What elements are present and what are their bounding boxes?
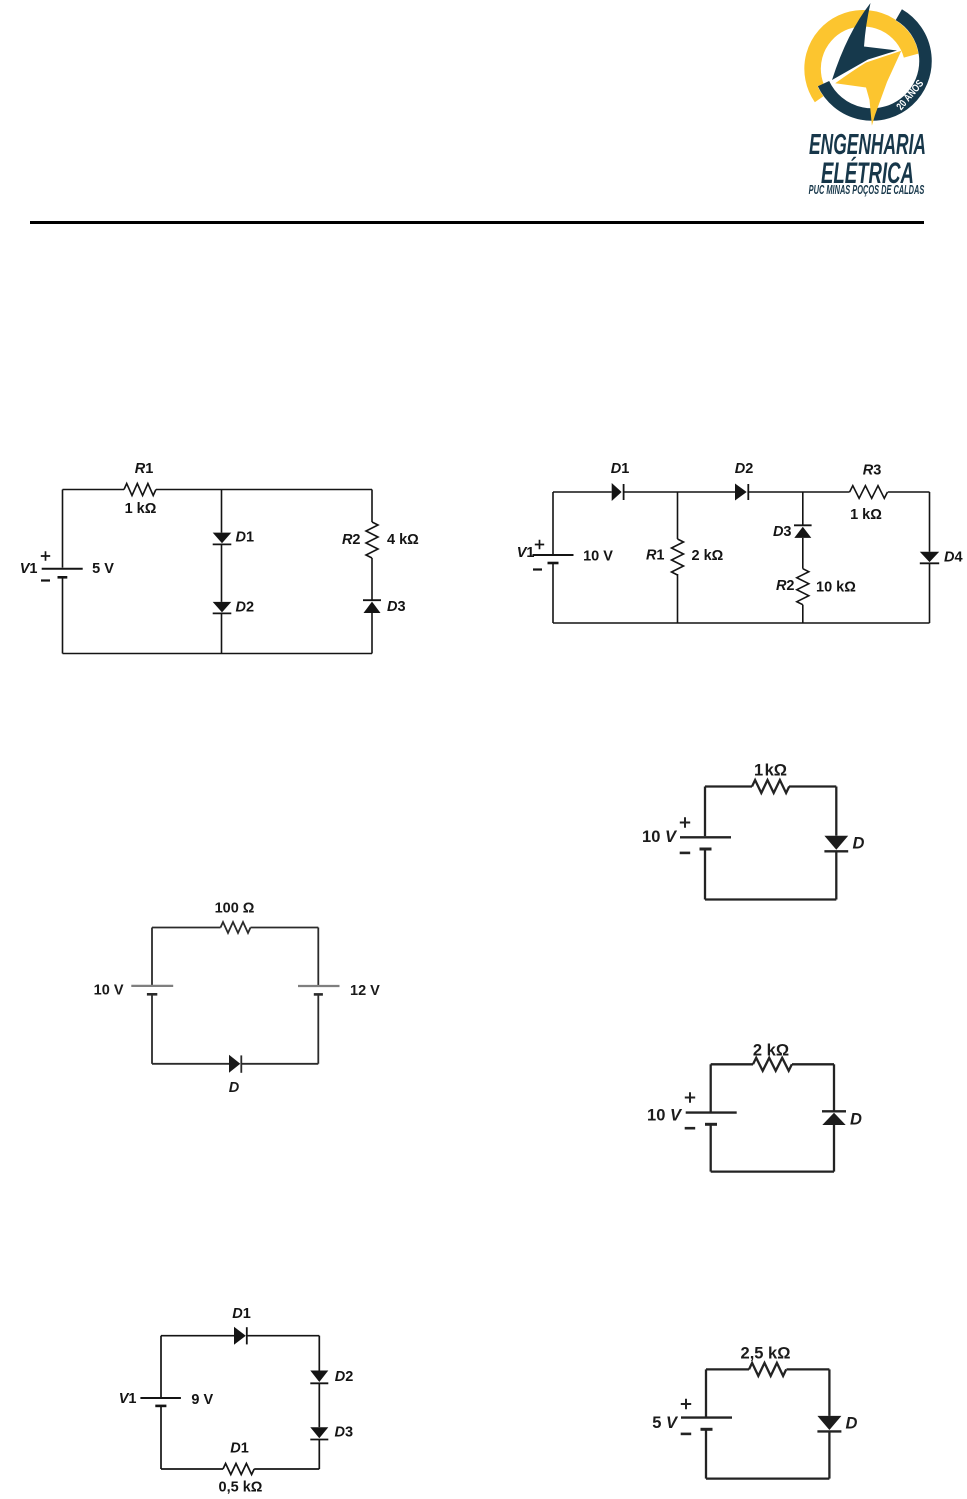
diode D3 cathode bar c6: [310, 1439, 328, 1441]
wire c4 top right segment: [789, 785, 836, 787]
svg-text:R1: R1: [135, 461, 154, 477]
wire c2 top segment a: [553, 491, 612, 493]
svg-text:D2: D2: [735, 461, 754, 477]
svg-text:9 V: 9 V: [191, 1392, 213, 1408]
wire c1 middle branch lower: [221, 613, 223, 653]
wire c6 bottom left segment: [161, 1468, 223, 1470]
svg-text:1 kΩ: 1 kΩ: [754, 762, 787, 780]
resistor 0,5 kOhm zigzag: [223, 1464, 254, 1475]
diode D triangle: [229, 1055, 240, 1073]
wire c7 top left segment: [706, 1368, 749, 1370]
battery c7 negative plate: [701, 1428, 713, 1431]
battery 10V short plate: [147, 993, 157, 996]
logo ring yellow arc: [813, 18, 912, 97]
wire c6 right lower: [318, 1440, 320, 1470]
svg-text:R2: R2: [342, 532, 361, 548]
wire c5 right upper: [833, 1064, 835, 1111]
diode D triangle c4: [824, 836, 848, 850]
svg-text:20 ANOS: 20 ANOS: [894, 78, 926, 113]
svg-text:10 kΩ: 10 kΩ: [816, 580, 856, 596]
battery c4 plus sign: [680, 817, 690, 827]
battery c4 minus sign: [680, 852, 691, 855]
diode D2 triangle c6: [310, 1371, 328, 1383]
wire c7 right lower: [828, 1431, 830, 1478]
svg-text:10 V: 10 V: [642, 828, 678, 846]
battery V1 negative plate c6: [155, 1405, 166, 1408]
wire c2 right lower: [929, 563, 931, 623]
wire c6 left upper: [160, 1336, 162, 1397]
svg-text:D1: D1: [236, 530, 255, 546]
wire c5 bottom: [711, 1170, 834, 1172]
svg-text:D2: D2: [236, 600, 255, 616]
wire c7 left upper: [705, 1369, 707, 1416]
battery V1 minus sign: [533, 568, 542, 570]
diode D1 cathode bar c6: [246, 1327, 248, 1344]
battery c4 positive plate: [680, 836, 731, 838]
wire c4 right lower: [835, 851, 837, 899]
svg-text:1 kΩ: 1 kΩ: [125, 501, 157, 517]
diode D1 cathode bar: [623, 484, 625, 500]
resistor R2 zigzag: [366, 522, 378, 558]
diode D1 triangle c6: [234, 1327, 246, 1345]
battery c5 plus sign: [685, 1092, 695, 1102]
svg-text:D4: D4: [944, 550, 963, 566]
wire c1 middle branch mid: [221, 544, 223, 602]
wire c6 top left segment: [161, 1335, 234, 1337]
header horizontal rule: [30, 221, 924, 224]
diode D1 cathode bar: [213, 543, 232, 545]
wire c5 top left segment: [711, 1063, 753, 1065]
svg-text:R1: R1: [646, 548, 665, 564]
battery V1 plus sign: [41, 551, 50, 560]
diode D triangle c5: [822, 1113, 845, 1125]
wire c7 right upper: [828, 1369, 830, 1416]
wire c2 branch R1 upper: [677, 492, 679, 539]
wire c3 top right segment: [251, 927, 319, 929]
diode D cathode bar: [240, 1055, 242, 1072]
svg-text:12 V: 12 V: [350, 983, 380, 999]
wire c3 left upper: [151, 928, 153, 986]
diode D1 triangle: [612, 483, 622, 501]
wire c7 top right segment: [787, 1368, 830, 1370]
wire c2 branch mid: [802, 538, 804, 569]
svg-text:V1: V1: [119, 1391, 137, 1407]
battery V1 plus sign: [535, 540, 544, 549]
svg-text:2 kΩ: 2 kΩ: [692, 548, 724, 564]
resistor R2 zigzag: [797, 569, 809, 605]
svg-text:5 V: 5 V: [652, 1414, 679, 1432]
battery 10V long plate: [131, 985, 173, 987]
svg-text:D2: D2: [335, 1369, 354, 1385]
wire c5 left upper: [710, 1064, 712, 1111]
svg-text:1 kΩ: 1 kΩ: [850, 507, 882, 523]
diode D4 triangle: [920, 552, 939, 562]
diode D3 cathode bar: [794, 524, 812, 526]
wire c7 left lower: [705, 1429, 707, 1478]
wire c1 left lower: [62, 577, 64, 653]
wire c3 bottom left segment: [152, 1063, 229, 1065]
diode D4 cathode bar: [920, 562, 939, 564]
battery c5 negative plate: [705, 1123, 717, 1126]
resistor 1 kOhm zigzag: [752, 780, 789, 793]
battery V1 positive plate c6: [140, 1397, 181, 1399]
wire c6 left lower: [160, 1406, 162, 1469]
wire c2 left upper: [552, 492, 554, 554]
diode D cathode bar c5: [822, 1110, 846, 1112]
battery c7 minus sign: [681, 1433, 692, 1436]
svg-text:D3: D3: [335, 1425, 354, 1441]
resistor R3 zigzag: [850, 486, 888, 499]
wire c2 top segment b: [624, 491, 735, 493]
wire c1 top left segment: [63, 489, 125, 491]
diode D cathode bar c4: [824, 850, 848, 852]
battery V1 positive plate: [42, 568, 83, 570]
wire c6 right upper: [318, 1336, 320, 1371]
resistor R1 zigzag: [124, 484, 156, 496]
wire c4 left lower: [704, 849, 706, 900]
wire c4 top left segment: [705, 785, 752, 787]
wire c5 left lower: [710, 1124, 712, 1171]
wire c5 right lower: [833, 1125, 835, 1172]
svg-text:2,5 kΩ: 2,5 kΩ: [741, 1345, 791, 1363]
diode D cathode bar c7: [817, 1430, 841, 1432]
svg-text:D: D: [846, 1415, 858, 1433]
svg-text:100 Ω: 100 Ω: [215, 901, 255, 917]
battery 12V long plate: [298, 985, 340, 987]
svg-text:D1: D1: [232, 1306, 251, 1322]
battery V1 positive plate: [533, 554, 574, 556]
svg-text:D: D: [853, 835, 865, 853]
wire c1 right upper: [371, 490, 373, 523]
svg-text:0,5 kΩ: 0,5 kΩ: [219, 1480, 263, 1496]
svg-text:D3: D3: [773, 524, 792, 540]
diode D2 cathode bar: [747, 484, 749, 500]
diode D2 triangle: [735, 484, 747, 501]
wire c4 right upper: [835, 787, 837, 836]
diode D triangle c7: [817, 1416, 841, 1430]
wire c1 right mid: [371, 558, 373, 600]
wire c6 top right segment: [247, 1335, 319, 1337]
svg-text:10 V: 10 V: [94, 983, 124, 999]
wire c5 top right segment: [792, 1063, 834, 1065]
diode D2 cathode bar c6: [310, 1382, 328, 1384]
svg-text:D1: D1: [611, 461, 630, 477]
wire c1 right lower: [371, 613, 373, 654]
wire c3 top left segment: [152, 927, 221, 929]
resistor R1 zigzag: [672, 539, 684, 575]
wire c2 branch D3R2 upper: [802, 492, 804, 525]
diode D2 triangle: [213, 602, 232, 613]
battery c4 negative plate: [700, 848, 712, 851]
wire c6 right mid: [318, 1383, 320, 1427]
svg-text:R2: R2: [776, 578, 795, 594]
wire c2 top segment d: [888, 491, 930, 493]
wire c4 bottom: [705, 898, 836, 900]
wire c2 right upper: [929, 492, 931, 552]
wire c6 bottom right segment: [254, 1468, 319, 1470]
svg-text:D: D: [850, 1111, 862, 1129]
svg-text:R3: R3: [863, 463, 882, 479]
wire c2 branch R1 lower: [677, 574, 679, 623]
resistor 2 kOhm zigzag: [753, 1058, 792, 1071]
battery c5 positive plate: [686, 1111, 737, 1113]
wire c3 bottom right segment: [241, 1063, 318, 1065]
wire c3 right lower: [317, 994, 319, 1063]
logo lightning bolt navy half: [832, 3, 897, 80]
svg-text:4 kΩ: 4 kΩ: [387, 532, 419, 548]
battery V1 negative plate: [58, 576, 68, 579]
battery c7 plus sign: [681, 1399, 691, 1409]
wire c3 left lower: [151, 994, 153, 1064]
svg-text:V1: V1: [20, 561, 38, 577]
svg-text:PUC MINAS POÇOS DE CALDAS: PUC MINAS POÇOS DE CALDAS: [809, 183, 925, 198]
battery V1 negative plate: [548, 562, 559, 565]
svg-text:5 V: 5 V: [92, 561, 114, 577]
wire c1 bottom: [63, 653, 373, 655]
svg-text:D1: D1: [230, 1441, 249, 1457]
svg-text:10 V: 10 V: [583, 549, 613, 565]
wire c1 middle branch upper: [221, 490, 223, 533]
svg-text:V1: V1: [517, 545, 535, 561]
diode D3 triangle: [794, 527, 811, 538]
wire c3 right upper: [317, 928, 319, 986]
svg-text:2 kΩ: 2 kΩ: [753, 1042, 789, 1060]
logo ring navy arc white underlay: [824, 15, 926, 115]
wire c2 top segment c: [748, 491, 849, 493]
logo ring navy arc: [824, 15, 926, 115]
diode D3 cathode bar: [363, 599, 381, 601]
diode D3 triangle: [364, 602, 381, 613]
wire c4 left upper: [704, 787, 706, 837]
wire c2 left lower: [552, 563, 554, 623]
diode D3 triangle c6: [310, 1427, 328, 1438]
svg-text:10 V: 10 V: [647, 1107, 683, 1125]
svg-text:D3: D3: [387, 599, 406, 615]
wire c1 top right segment: [156, 489, 372, 491]
battery V1 minus sign: [41, 579, 50, 581]
diode D2 cathode bar: [213, 612, 232, 614]
resistor 2,5 kOhm zigzag: [749, 1363, 786, 1376]
battery c5 minus sign: [685, 1127, 696, 1130]
logo lightning bolt yellow half: [835, 51, 901, 126]
resistor 100 Ohm zigzag: [221, 922, 251, 933]
battery c7 positive plate: [681, 1416, 732, 1418]
battery 12V short plate: [314, 993, 323, 996]
diode D1 triangle: [213, 533, 232, 544]
wire c2 branch lower: [802, 605, 804, 623]
svg-text:D: D: [229, 1080, 240, 1096]
wire c2 bottom: [553, 622, 930, 624]
wire c1 left upper: [62, 490, 64, 568]
wire c7 bottom: [706, 1477, 829, 1479]
